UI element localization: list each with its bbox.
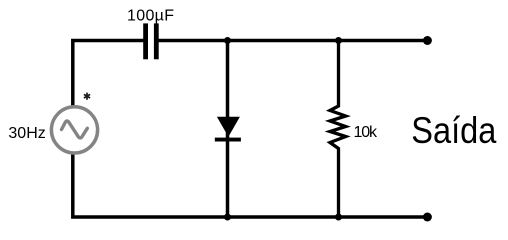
AC source V1 circle (51, 107, 97, 153)
wire: resistor branch with zigzag (330, 41, 346, 218)
svg-text:30Hz: 30Hz (8, 125, 45, 142)
junction bottom resistor (335, 214, 342, 221)
terminal bottom output (423, 213, 432, 222)
svg-text:10k: 10k (354, 124, 379, 141)
wire: bottom rail (73, 153, 428, 217)
junction top resistor (335, 37, 342, 44)
diode D1 triangle (217, 117, 240, 137)
svg-text:Saída: Saída (411, 110, 496, 151)
wire: diode branch (226, 41, 230, 218)
wire: top rail right segment (capacitor to output terminal) (157, 39, 428, 43)
AC source sine wave (62, 121, 88, 138)
diode D1 cathode bar (215, 138, 241, 142)
asterisk marker (84, 93, 90, 100)
junction top diode (224, 37, 231, 44)
junction bottom diode (224, 214, 231, 221)
wire: top rail left segment (to capacitor) (73, 41, 145, 108)
svg-text:100µF: 100µF (127, 8, 174, 25)
terminal top output (423, 36, 432, 45)
capacitor C1 plates (143, 23, 159, 59)
